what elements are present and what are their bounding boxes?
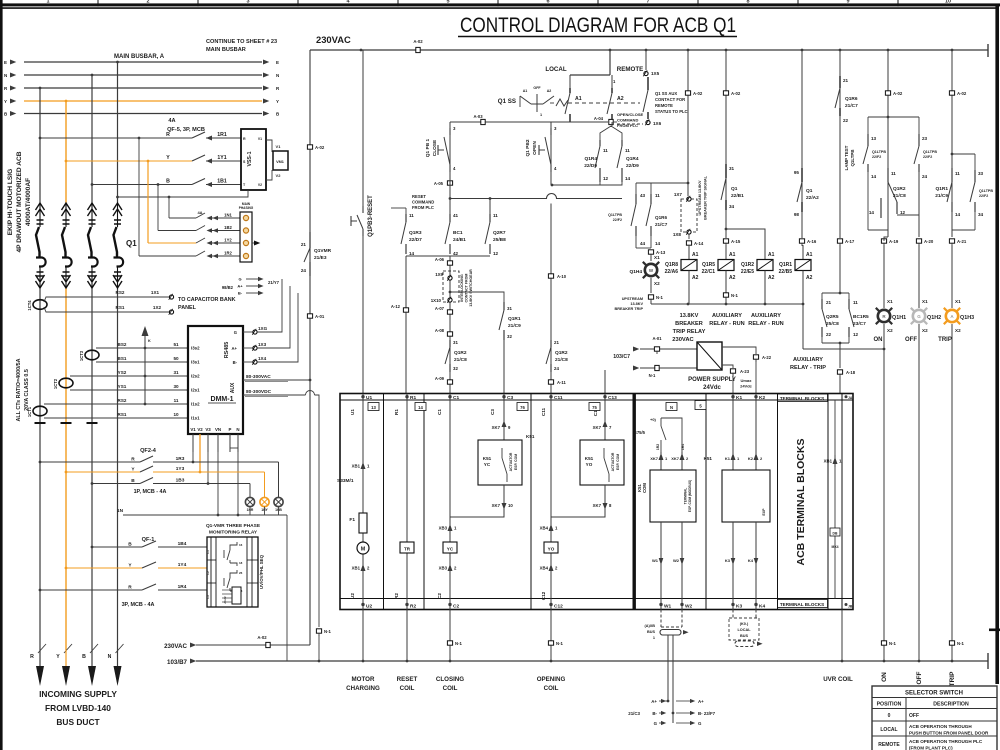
svg-text:Q1 SS: Q1 SS <box>498 98 516 105</box>
svg-text:0: 0 <box>888 713 891 719</box>
svg-text:BREAKER TRIP SIGNAL: BREAKER TRIP SIGNAL <box>704 175 708 219</box>
svg-text:MOTOR: MOTOR <box>352 676 375 683</box>
svg-text:COM: COM <box>642 483 647 493</box>
svg-text:22/D9: 22/D9 <box>584 163 597 169</box>
svg-text:UV/OV/PHL SEQ: UV/OV/PHL SEQ <box>259 554 264 589</box>
svg-text:XK7: XK7 <box>671 456 680 461</box>
svg-text:1X5: 1X5 <box>651 71 660 76</box>
svg-text:13.8KV: 13.8KV <box>680 313 699 319</box>
svg-text:98/B2: 98/B2 <box>222 285 234 290</box>
svg-text:A1: A1 <box>729 252 736 258</box>
svg-text:I3s1: I3s1 <box>191 360 200 365</box>
svg-text:Q1R1: Q1R1 <box>935 186 948 192</box>
svg-text:24: 24 <box>301 268 307 273</box>
svg-text:A1: A1 <box>523 89 528 93</box>
svg-text:RESET: RESET <box>397 676 418 683</box>
svg-text:M: M <box>361 547 366 553</box>
svg-text:22: 22 <box>843 118 849 123</box>
svg-text:N-1: N-1 <box>656 295 664 300</box>
svg-text:22: 22 <box>826 332 832 337</box>
svg-text:33: 33 <box>978 171 984 176</box>
svg-text:RELAY - TRIP: RELAY - TRIP <box>790 365 826 371</box>
svg-text:POWER SUPPLY: POWER SUPPLY <box>688 377 736 383</box>
svg-text:FROM LVBD-140: FROM LVBD-140 <box>45 703 111 713</box>
svg-text:14: 14 <box>418 405 423 410</box>
svg-text:1P, MCB - 4A: 1P, MCB - 4A <box>134 489 167 495</box>
svg-text:ON: ON <box>881 672 888 682</box>
svg-text:ACB OPERATION THROUGH PLC: ACB OPERATION THROUGH PLC <box>909 739 983 744</box>
svg-text:1X3: 1X3 <box>258 342 267 347</box>
svg-text:A-08: A-08 <box>435 328 445 333</box>
svg-text:1: 1 <box>540 113 542 117</box>
svg-text:Q1 PB 1: Q1 PB 1 <box>425 138 431 157</box>
svg-text:N-1: N-1 <box>731 293 739 298</box>
svg-text:230VAC: 230VAC <box>672 337 694 343</box>
svg-text:N-1: N-1 <box>889 641 897 646</box>
svg-text:G: G <box>698 721 702 726</box>
svg-text:RELAY - RUN: RELAY - RUN <box>748 321 783 327</box>
svg-text:INTERLOCKING: INTERLOCKING <box>460 274 464 302</box>
svg-text:Q1LTPB: Q1LTPB <box>872 150 886 154</box>
svg-text:Q1VMR: Q1VMR <box>314 248 332 254</box>
svg-text:A-17: A-17 <box>845 239 855 244</box>
svg-text:13: 13 <box>371 405 376 410</box>
svg-text:V3: V3 <box>205 427 211 432</box>
svg-text:A-10: A-10 <box>557 274 567 279</box>
svg-text:A-02: A-02 <box>693 91 703 96</box>
svg-text:DMM-1: DMM-1 <box>211 396 234 403</box>
svg-text:13: 13 <box>871 136 877 141</box>
svg-text:14: 14 <box>655 241 661 246</box>
svg-text:A-01: A-01 <box>652 336 662 341</box>
svg-text:A-22: A-22 <box>762 355 772 360</box>
svg-text:TO CAPACITOR BANK: TO CAPACITOR BANK <box>178 297 236 303</box>
svg-text:XK7: XK7 <box>492 503 501 508</box>
svg-text:Q1R2: Q1R2 <box>741 262 754 268</box>
svg-text:UPSTREAM: UPSTREAM <box>622 297 643 301</box>
svg-text:21: 21 <box>301 242 307 247</box>
svg-text:COIL: COIL <box>400 685 415 692</box>
svg-text:AUXILIARY: AUXILIARY <box>751 313 781 319</box>
svg-text:B-: B- <box>238 291 243 296</box>
svg-text:U1: U1 <box>350 409 355 415</box>
svg-text:Q1LTPB: Q1LTPB <box>608 213 622 217</box>
svg-text:A-02: A-02 <box>257 635 267 640</box>
svg-text:21/Y7: 21/Y7 <box>268 280 280 285</box>
svg-text:1R2: 1R2 <box>656 444 660 450</box>
svg-text:Y: Y <box>276 99 279 104</box>
svg-text:A-06: A-06 <box>435 257 445 262</box>
svg-text:A+: A+ <box>698 699 704 704</box>
svg-text:K2: K2 <box>748 456 754 461</box>
svg-text:A-04: A-04 <box>594 116 604 121</box>
svg-text:11: 11 <box>955 171 960 176</box>
svg-text:14: 14 <box>625 176 631 181</box>
svg-text:S33M/1: S33M/1 <box>337 478 354 484</box>
svg-text:14: 14 <box>955 212 961 217</box>
svg-text:24: 24 <box>922 174 928 179</box>
svg-text:TERMINAL BLOCKS: TERMINAL BLOCKS <box>780 396 824 401</box>
svg-text:B-: B- <box>652 711 657 716</box>
svg-text:QF2-4: QF2-4 <box>140 448 157 454</box>
svg-text:BS1: BS1 <box>118 356 127 361</box>
svg-text:E: E <box>276 60 279 65</box>
svg-text:YO: YO <box>586 462 593 467</box>
svg-text:I3s2: I3s2 <box>191 346 200 351</box>
svg-text:25/C8: 25/C8 <box>826 321 839 327</box>
svg-text:TERMINAL: TERMINAL <box>684 488 688 505</box>
svg-text:MONITORING RELAY: MONITORING RELAY <box>209 530 258 536</box>
svg-text:G: G <box>917 314 921 319</box>
svg-text:TRIP: TRIP <box>938 337 952 343</box>
svg-text:QF-5, 3P, MCB: QF-5, 3P, MCB <box>167 127 205 133</box>
svg-text:44: 44 <box>640 241 646 246</box>
svg-text:RS2: RS2 <box>116 290 125 295</box>
svg-text:CHARGING: CHARGING <box>346 685 380 692</box>
svg-text:BUS: BUS <box>647 630 655 634</box>
svg-text:CONTROL DIAGRAM FOR ACB Q1: CONTROL DIAGRAM FOR ACB Q1 <box>460 14 736 37</box>
svg-text:76: 76 <box>520 405 525 410</box>
svg-text:VN: VN <box>215 427 221 432</box>
svg-text:4P DRAWOUT MOTORIZED ACB: 4P DRAWOUT MOTORIZED ACB <box>16 151 23 252</box>
svg-text:21/C9: 21/C9 <box>508 323 521 329</box>
svg-text:XB4: XB4 <box>540 566 549 571</box>
svg-text:RS2: RS2 <box>118 398 127 403</box>
svg-text:Q1R5: Q1R5 <box>702 262 715 268</box>
svg-text:YS1: YS1 <box>118 384 127 389</box>
svg-text:Y: Y <box>56 654 60 660</box>
svg-text:(A)XB: (A)XB <box>644 624 655 628</box>
svg-text:103/B7: 103/B7 <box>167 659 188 666</box>
svg-text:I2s2: I2s2 <box>191 374 200 379</box>
svg-text:A2: A2 <box>547 89 552 93</box>
svg-text:V1: V1 <box>258 137 262 141</box>
svg-text:Q1LTPB: Q1LTPB <box>979 189 993 193</box>
svg-text:REMOTE: REMOTE <box>878 742 900 748</box>
svg-text:X2: X2 <box>922 328 928 333</box>
svg-text:A-20: A-20 <box>924 239 934 244</box>
svg-text:1CT1: 1CT1 <box>27 406 32 417</box>
svg-text:A-18: A-18 <box>846 370 856 375</box>
svg-text:22/F2: 22/F2 <box>613 218 622 222</box>
svg-text:L2: L2 <box>206 571 210 575</box>
svg-text:13.8KV: 13.8KV <box>630 302 643 306</box>
svg-text:DB: DB <box>833 532 838 536</box>
svg-text:98: 98 <box>794 212 800 217</box>
svg-text:ALL CTs RATIO=4000/5A: ALL CTs RATIO=4000/5A <box>16 358 22 421</box>
svg-text:TR: TR <box>404 547 411 552</box>
svg-text:F1: F1 <box>349 517 355 523</box>
svg-text:1X9: 1X9 <box>435 272 443 277</box>
svg-text:11: 11 <box>409 213 414 218</box>
svg-text:50: 50 <box>173 356 179 361</box>
svg-text:R2: R2 <box>394 593 399 599</box>
svg-text:PANEL: PANEL <box>178 305 197 311</box>
svg-text:N: N <box>236 427 239 432</box>
svg-text:Q1H4: Q1H4 <box>629 269 642 275</box>
svg-text:K51: K51 <box>483 456 492 461</box>
svg-text:Q1: Q1 <box>731 186 738 192</box>
svg-text:75: 75 <box>592 405 597 410</box>
svg-text:1CT2: 1CT2 <box>53 378 58 389</box>
svg-text:80-300VAC: 80-300VAC <box>246 374 271 380</box>
svg-text:Q1-VMR THREE PHASE: Q1-VMR THREE PHASE <box>206 523 261 529</box>
svg-text:80-300VDC: 80-300VDC <box>246 389 272 395</box>
svg-text:LOCAL: LOCAL <box>545 66 567 73</box>
svg-text:B-: B- <box>233 360 238 365</box>
svg-text:22/F2: 22/F2 <box>872 155 881 159</box>
svg-text:34: 34 <box>729 204 735 209</box>
svg-text:K3: K3 <box>725 558 731 563</box>
svg-text:W2: W2 <box>673 558 680 563</box>
svg-text:12: 12 <box>900 210 906 215</box>
svg-text:RS1: RS1 <box>116 305 125 310</box>
svg-text:STATUS TO PLC: STATUS TO PLC <box>655 109 688 114</box>
svg-text:Q1R1: Q1R1 <box>508 316 521 322</box>
svg-text:12: 12 <box>853 332 859 337</box>
svg-text:W1: W1 <box>652 558 659 563</box>
svg-text:1XG: 1XG <box>258 326 268 331</box>
svg-text:K51: K51 <box>526 434 535 439</box>
svg-text:FROM PLC: FROM PLC <box>617 123 638 128</box>
svg-text:Q1R6: Q1R6 <box>655 215 667 220</box>
svg-text:31: 31 <box>507 306 512 311</box>
svg-text:ESP. COM: ESP. COM <box>514 454 518 470</box>
svg-text:A2: A2 <box>768 275 775 281</box>
svg-text:V2: V2 <box>258 183 262 187</box>
svg-text:X1: X1 <box>922 299 928 304</box>
svg-text:230VAC: 230VAC <box>164 643 187 650</box>
svg-text:U2: U2 <box>350 593 355 599</box>
svg-text:1N1: 1N1 <box>224 213 232 218</box>
svg-text:Q2R7: Q2R7 <box>493 230 506 236</box>
svg-text:1X1: 1X1 <box>151 290 160 295</box>
svg-text:R: R <box>243 137 246 141</box>
svg-text:UVR COIL: UVR COIL <box>823 676 853 683</box>
svg-text:ESP. COM: ESP. COM <box>616 454 620 470</box>
svg-text:ESP. COM (MODBUS): ESP. COM (MODBUS) <box>688 480 692 512</box>
svg-text:32: 32 <box>453 366 458 371</box>
svg-text:Q1LTPB: Q1LTPB <box>850 150 855 167</box>
svg-text:1Y1: 1Y1 <box>217 155 226 161</box>
svg-text:230VAC: 230VAC <box>316 34 351 45</box>
svg-text:103/C7: 103/C7 <box>613 354 630 360</box>
svg-text:REMOTE: REMOTE <box>655 103 673 108</box>
svg-text:BREAKER TRIP: BREAKER TRIP <box>615 307 644 311</box>
svg-text:FROM PLC: FROM PLC <box>412 205 434 210</box>
svg-text:R: R <box>128 585 132 591</box>
svg-text:51: 51 <box>173 342 179 347</box>
svg-text:A+: A+ <box>651 699 657 704</box>
svg-text:K51: K51 <box>704 456 713 461</box>
svg-text:AUXILIARY: AUXILIARY <box>793 357 823 363</box>
svg-text:TRIP RELAY: TRIP RELAY <box>673 329 706 335</box>
svg-text:B: B <box>82 654 86 660</box>
svg-text:G: G <box>238 277 241 282</box>
svg-text:22/F2: 22/F2 <box>979 194 988 198</box>
svg-text:C13: C13 <box>608 395 617 401</box>
svg-text:K1: K1 <box>725 456 731 461</box>
svg-text:BC1: BC1 <box>453 230 463 236</box>
svg-text:ACB OPERATION THROUGH: ACB OPERATION THROUGH <box>909 724 972 729</box>
svg-text:30: 30 <box>173 384 179 389</box>
svg-text:VSS-1: VSS-1 <box>247 151 253 166</box>
svg-text:XK7: XK7 <box>593 503 602 508</box>
svg-text:RESET: RESET <box>412 194 426 199</box>
svg-text:POSITION: POSITION <box>877 702 902 708</box>
svg-text:1X10: 1X10 <box>431 298 442 303</box>
svg-text:14: 14 <box>871 174 877 179</box>
svg-text:Q1H2: Q1H2 <box>927 315 941 321</box>
svg-text:A2: A2 <box>692 275 699 281</box>
svg-text:22/B5: 22/B5 <box>779 269 793 275</box>
svg-text:COMMAND: COMMAND <box>412 200 434 205</box>
svg-text:1X7: 1X7 <box>674 192 683 197</box>
svg-text:31: 31 <box>729 166 735 171</box>
svg-text:ACTUATOR: ACTUATOR <box>509 452 513 471</box>
svg-text:31: 31 <box>173 370 179 375</box>
svg-text:Q1R4: Q1R4 <box>584 156 597 162</box>
svg-text:4000AT/4000AF: 4000AT/4000AF <box>25 178 32 226</box>
svg-text:Q1R8: Q1R8 <box>665 262 678 268</box>
svg-text:25/B8: 25/B8 <box>493 237 506 243</box>
svg-text:31: 31 <box>453 340 458 345</box>
svg-text:CLOSE: CLOSE <box>432 139 438 156</box>
svg-text:B- 23/F7: B- 23/F7 <box>698 711 716 716</box>
svg-text:Q1PB3-RESET: Q1PB3-RESET <box>368 195 374 237</box>
svg-text:4A: 4A <box>168 118 175 124</box>
svg-text:A1: A1 <box>575 96 582 102</box>
svg-text:OFF: OFF <box>909 713 919 719</box>
svg-text:4A: 4A <box>197 210 202 215</box>
svg-text:X1: X1 <box>887 299 893 304</box>
svg-text:MX4: MX4 <box>832 545 839 549</box>
svg-text:24: 24 <box>554 366 559 371</box>
svg-text:I1s2: I1s2 <box>191 402 200 407</box>
svg-text:21/E3: 21/E3 <box>314 255 327 261</box>
svg-text:XB1: XB1 <box>352 464 361 469</box>
svg-text:N: N <box>276 73 279 78</box>
svg-text:C11: C11 <box>554 395 563 401</box>
svg-text:ACB TERMINAL BLOCKS: ACB TERMINAL BLOCKS <box>795 439 807 566</box>
svg-text:ON: ON <box>874 337 883 343</box>
svg-text:BUS DUCT: BUS DUCT <box>56 717 100 727</box>
svg-text:Q1: Q1 <box>126 239 137 248</box>
svg-text:JA: JA <box>848 396 853 400</box>
svg-text:A-02: A-02 <box>957 91 967 96</box>
svg-text:N: N <box>108 654 112 660</box>
svg-text:K4: K4 <box>748 558 754 563</box>
svg-text:VM1: VM1 <box>276 160 284 164</box>
svg-text:21/C7: 21/C7 <box>845 103 858 109</box>
svg-text:Q1 PB2: Q1 PB2 <box>525 139 531 156</box>
svg-text:V2: V2 <box>276 173 282 178</box>
svg-text:A-15: A-15 <box>731 239 741 244</box>
svg-text:C12: C12 <box>541 591 546 600</box>
svg-text:12: 12 <box>603 176 609 181</box>
svg-text:I1s1: I1s1 <box>191 416 200 421</box>
svg-text:G: G <box>234 330 237 335</box>
svg-text:BC1R5: BC1R5 <box>853 314 869 320</box>
svg-text:10: 10 <box>508 503 513 508</box>
svg-text:TRIP: TRIP <box>949 671 956 686</box>
svg-text:21/C3: 21/C3 <box>628 711 640 716</box>
svg-text:24Vdc: 24Vdc <box>703 385 721 391</box>
svg-text:12: 12 <box>493 251 499 256</box>
svg-text:22/B1: 22/B1 <box>731 193 744 199</box>
svg-text:A-02: A-02 <box>731 91 741 96</box>
svg-text:X2: X2 <box>955 328 961 333</box>
svg-text:(FROM PLANT PLC): (FROM PLANT PLC) <box>909 746 953 750</box>
svg-text:G: G <box>654 721 658 726</box>
svg-text:R: R <box>30 654 34 660</box>
svg-text:Q1: Q1 <box>806 188 813 194</box>
svg-text:LAMP TEST: LAMP TEST <box>844 145 849 170</box>
svg-text:COIL: COIL <box>443 685 458 692</box>
svg-text:W2: W2 <box>685 604 693 610</box>
svg-text:RS485: RS485 <box>224 342 230 358</box>
svg-text:(K0.): (K0.) <box>740 622 749 626</box>
svg-text:1CT3: 1CT3 <box>79 350 84 361</box>
svg-text:1X2: 1X2 <box>153 305 162 310</box>
svg-text:A-03: A-03 <box>473 114 483 119</box>
svg-text:A-14: A-14 <box>694 241 704 246</box>
svg-text:24Vdc: 24Vdc <box>740 384 753 389</box>
svg-text:N: N <box>670 405 673 410</box>
svg-text:YC: YC <box>447 547 454 552</box>
svg-text:1B3: 1B3 <box>176 478 185 484</box>
svg-text:YC: YC <box>484 462 491 467</box>
svg-text:22/A2: 22/A2 <box>806 195 819 201</box>
svg-text:13.8KV SWITCHGEAR: 13.8KV SWITCHGEAR <box>469 269 473 307</box>
svg-text:W1: W1 <box>664 604 672 610</box>
svg-text:23: 23 <box>922 136 928 141</box>
svg-text:C2: C2 <box>453 604 459 610</box>
svg-text:K2: K2 <box>759 395 765 401</box>
svg-text:OPEN: OPEN <box>532 141 538 155</box>
svg-text:A2: A2 <box>806 275 813 281</box>
svg-text:21/C8: 21/C8 <box>893 193 906 199</box>
svg-text:21: 21 <box>843 78 849 83</box>
svg-text:YS2: YS2 <box>118 370 127 375</box>
svg-text:Q1R6: Q1R6 <box>845 96 858 102</box>
svg-text:X2: X2 <box>887 328 893 333</box>
svg-text:1N: 1N <box>117 508 124 514</box>
svg-text:A-05: A-05 <box>434 181 444 186</box>
svg-text:V1: V1 <box>190 427 196 432</box>
svg-text:14: 14 <box>409 251 415 256</box>
svg-text:R2: R2 <box>410 604 416 610</box>
svg-text:Y: Y <box>166 155 170 161</box>
svg-text:1X4: 1X4 <box>258 356 267 361</box>
svg-text:22/E5: 22/E5 <box>741 269 754 275</box>
svg-text:Q1R2: Q1R2 <box>454 350 467 356</box>
svg-text:AUXILIARY: AUXILIARY <box>712 313 742 319</box>
svg-text:23/C7: 23/C7 <box>853 321 866 327</box>
svg-text:A-02: A-02 <box>413 39 423 44</box>
svg-text:EKIP HI-TOUCH LSIG: EKIP HI-TOUCH LSIG <box>7 169 14 235</box>
svg-text:CONTINUE TO SHEET # 23: CONTINUE TO SHEET # 23 <box>206 39 277 45</box>
svg-text:INCOMING SUPPLY: INCOMING SUPPLY <box>39 689 117 699</box>
svg-text:N-1: N-1 <box>455 641 463 646</box>
svg-text:U2: U2 <box>366 604 372 610</box>
svg-text:K51: K51 <box>585 456 594 461</box>
svg-text:OFF: OFF <box>533 86 541 90</box>
svg-text:A-02: A-02 <box>893 91 903 96</box>
svg-text:1X8: 1X8 <box>673 232 682 237</box>
svg-text:N-1: N-1 <box>957 641 965 646</box>
svg-text:BS2: BS2 <box>118 342 127 347</box>
